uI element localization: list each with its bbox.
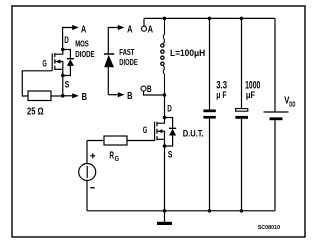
svg-text:S: S	[168, 149, 173, 160]
svg-text:μ F: μ F	[216, 90, 226, 101]
junction: B node (MOS diode block)	[61, 94, 65, 98]
battery VDD	[264, 18, 289, 210]
junction: top rail / inductor	[163, 17, 167, 21]
diode: body diode of Q1	[63, 50, 74, 76]
minus sign of V1	[90, 187, 94, 189]
junction: top rail / C2	[240, 17, 244, 21]
body stub + source stub	[157, 131, 165, 146]
svg-text:D: D	[167, 103, 172, 114]
terminal circle B (main circuit)	[141, 86, 165, 95]
label VDD	[284, 95, 295, 108]
svg-text:DD: DD	[289, 101, 295, 108]
label FAST DIODE	[119, 48, 138, 67]
junction: Q1 source node	[61, 74, 65, 78]
svg-text:B: B	[147, 84, 152, 95]
svg-text:A: A	[127, 24, 133, 36]
label MOS DIODE	[75, 39, 95, 58]
wire: MOS diode drain to terminal A arrow	[63, 25, 79, 50]
junction: bottom rail / source+ground	[163, 209, 167, 213]
svg-text:μF: μF	[246, 90, 255, 101]
body arrow of Q1	[56, 59, 61, 63]
wire: fast diode terminal A arrow	[108, 25, 124, 54]
wire: gate loop of Q1	[22, 71, 52, 96]
wire: fast diode terminal B arrow	[108, 92, 124, 97]
diode: body diode of Q2	[165, 118, 177, 147]
wire: top rail	[144, 17, 275, 19]
junction: bottom rail / C2	[240, 209, 244, 213]
svg-text:MOS: MOS	[75, 39, 89, 48]
svg-text:B: B	[82, 91, 88, 103]
gate bar	[154, 122, 156, 141]
svg-text:G: G	[42, 59, 46, 69]
resistor R2 RG	[87, 136, 155, 145]
drain stub	[55, 50, 63, 55]
diode D2 FAST DIODE	[104, 54, 114, 95]
body arrow of Q2	[158, 129, 163, 133]
svg-text:25 Ω: 25 Ω	[27, 105, 44, 117]
wire: node B to DUT drain	[164, 95, 166, 118]
svg-text:G: G	[143, 125, 147, 135]
svg-text:SC08010: SC08010	[258, 225, 280, 231]
svg-text:FAST: FAST	[119, 48, 134, 57]
value label 3.3 μF	[216, 79, 227, 101]
svg-text:DIODE: DIODE	[75, 50, 95, 59]
svg-text:A: A	[148, 24, 154, 36]
junction: top rail / C1	[208, 17, 212, 21]
ground	[157, 211, 172, 225]
wire: DUT source to bottom rail	[164, 146, 166, 211]
drain stub	[157, 118, 165, 124]
svg-text:D.U.T.: D.U.T.	[183, 129, 204, 140]
svg-text:DIODE: DIODE	[119, 58, 138, 67]
body stub + source stub	[55, 62, 63, 76]
svg-text:L=100μH: L=100μH	[170, 48, 205, 59]
svg-text:A: A	[81, 24, 87, 36]
wire: Q1 source down to B row	[62, 76, 64, 96]
junction: DUT drain node	[163, 116, 167, 120]
label RG	[109, 150, 119, 163]
inductor L1	[161, 18, 165, 95]
channel segments	[156, 122, 158, 127]
svg-text:D: D	[64, 35, 69, 46]
svg-text:B: B	[127, 90, 133, 102]
transistor Q1 (MOS DIODE mosfet)	[52, 50, 63, 76]
junction: Q1 drain node	[61, 48, 65, 52]
value label 1000 μF	[245, 79, 260, 101]
transistor Q2 D.U.T.	[155, 118, 165, 147]
svg-text:S: S	[65, 80, 70, 91]
wire: terminal B arrow (MOS diode block)	[63, 93, 79, 98]
junction: node B / drain	[163, 93, 167, 97]
capacitor C1 3.3uF	[203, 18, 215, 210]
source V1 pulse generator	[79, 141, 96, 211]
junction: bottom rail / C1	[208, 209, 212, 213]
junction: DUT source node	[163, 144, 167, 148]
capacitor C2 1000uF (electrolytic)	[235, 18, 248, 210]
wire: bottom rail	[87, 210, 275, 212]
plus sign of V1	[90, 153, 95, 158]
gate bar	[51, 53, 53, 71]
svg-text:G: G	[115, 156, 120, 163]
resistor R1 25 ohm	[28, 91, 63, 101]
channel segments	[54, 53, 56, 57]
terminal circle A (main circuit)	[142, 18, 147, 31]
